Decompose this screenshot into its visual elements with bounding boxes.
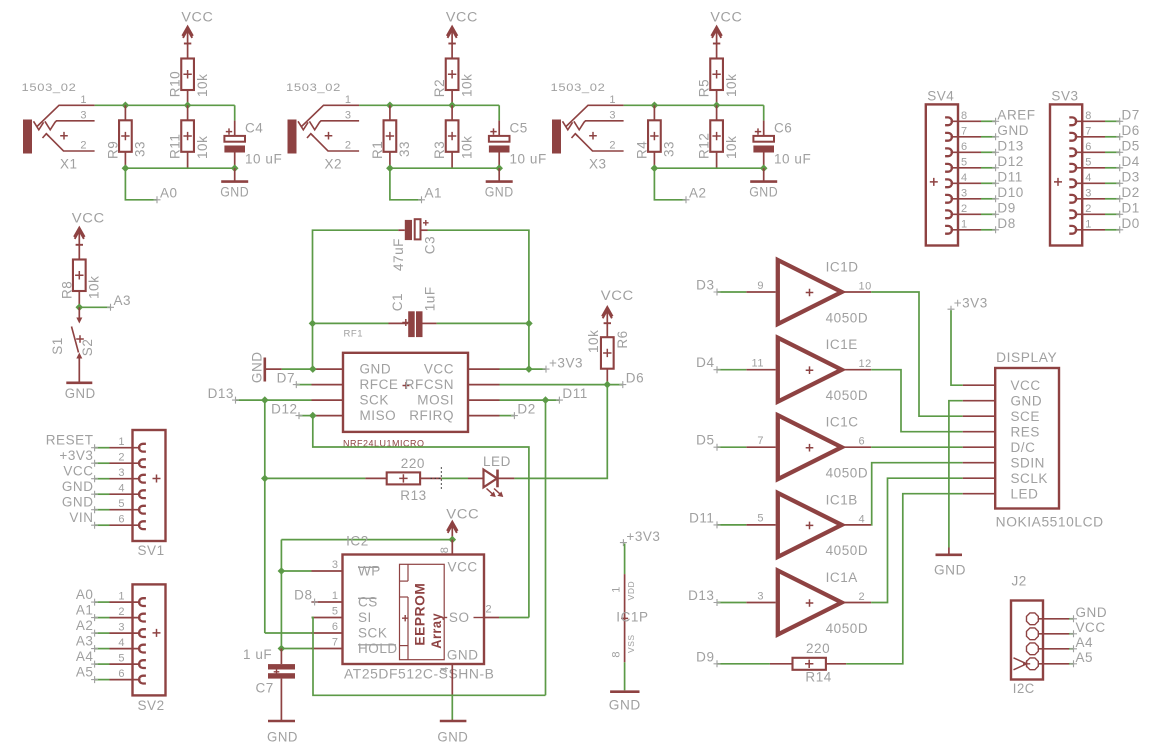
svg-text:12: 12 — [859, 358, 872, 370]
junction — [651, 102, 721, 110]
svg-text:R13: R13 — [400, 488, 426, 503]
svg-text:5: 5 — [1085, 157, 1092, 169]
svg-text:4: 4 — [961, 172, 968, 184]
ground (C7) — [267, 721, 298, 745]
net label +3V3 (module VCC) — [500, 355, 584, 372]
pin net A4 (J2) — [1027, 635, 1094, 655]
svg-text:33: 33 — [397, 141, 412, 157]
resistor R12 10k — [697, 105, 739, 168]
svg-text:3: 3 — [1085, 188, 1092, 200]
svg-text:A0: A0 — [160, 186, 178, 201]
svg-text:8: 8 — [961, 110, 968, 122]
svg-text:LED: LED — [1011, 486, 1039, 501]
svg-text:GND: GND — [62, 495, 94, 510]
svg-text:5: 5 — [757, 513, 764, 525]
svg-text:+3V3: +3V3 — [626, 529, 660, 544]
svg-text:1503_02: 1503_02 — [551, 82, 606, 94]
resistor R1 33 — [370, 105, 412, 168]
svg-text:X1: X1 — [60, 157, 78, 172]
svg-text:2: 2 — [1085, 203, 1092, 215]
power VCC (X3 block) — [710, 10, 742, 59]
svg-text:10: 10 — [859, 280, 872, 292]
svg-text:5: 5 — [118, 498, 125, 510]
svg-text:8: 8 — [610, 651, 622, 658]
junction — [261, 396, 269, 404]
svg-text:R3: R3 — [432, 141, 447, 159]
svg-text:D3: D3 — [696, 278, 714, 293]
net label D3 (input IC1D) — [696, 278, 746, 296]
svg-text:D2: D2 — [1122, 185, 1140, 200]
svg-text:33: 33 — [133, 141, 148, 157]
svg-text:4: 4 — [118, 637, 125, 649]
svg-text:D7: D7 — [1122, 108, 1140, 123]
svg-text:VSS: VSS — [626, 634, 636, 653]
net label D2 (RFIRQ) — [500, 401, 536, 419]
svg-text:IC1B: IC1B — [826, 492, 858, 507]
pin net A5 (J2) — [1027, 650, 1094, 670]
pin 6 net D13 — [945, 139, 1024, 157]
svg-text:10 uF: 10 uF — [510, 152, 547, 167]
svg-text:D5: D5 — [696, 433, 714, 448]
wire net SCK row — [265, 478, 312, 633]
pin 4 net A3 — [76, 634, 146, 653]
svg-text:MOSI: MOSI — [417, 393, 454, 408]
svg-text:3: 3 — [332, 559, 339, 571]
svg-text:4: 4 — [118, 482, 125, 494]
wire net WP — [281, 570, 311, 572]
power VCC (IC2) — [446, 506, 479, 539]
svg-text:10k: 10k — [195, 136, 210, 159]
pin 6 net A5 — [76, 665, 146, 684]
ground — [65, 383, 96, 401]
net label D11 (input IC1B) — [689, 510, 746, 528]
svg-text:3: 3 — [118, 467, 125, 479]
svg-text:4: 4 — [859, 513, 866, 525]
wire net row2 — [654, 167, 763, 169]
svg-text:D9: D9 — [997, 201, 1015, 216]
resistor R8 10k — [59, 260, 101, 308]
svg-text:8: 8 — [439, 547, 451, 554]
svg-text:D11: D11 — [997, 170, 1022, 185]
svg-text:R1: R1 — [370, 141, 385, 159]
resistor R14 220 — [770, 641, 846, 685]
svg-text:D8: D8 — [997, 216, 1015, 231]
svg-text:C5: C5 — [510, 121, 528, 136]
buffer IC1A 4050D — [746, 570, 871, 636]
junction — [278, 567, 286, 652]
svg-text:R4: R4 — [635, 141, 650, 159]
junction — [122, 102, 192, 110]
pin 1 arrow marker (J2) — [1014, 658, 1031, 670]
svg-text:Array: Array — [428, 613, 444, 649]
capacitor C1 1uF — [389, 286, 438, 337]
svg-text:1: 1 — [80, 94, 87, 106]
power VCC (X1 block) — [181, 10, 213, 59]
svg-text:D4: D4 — [696, 355, 714, 370]
svg-text:1: 1 — [961, 219, 968, 231]
resistor R13 220 — [365, 456, 441, 503]
svg-text:AT25DF512C-SSHN-B: AT25DF512C-SSHN-B — [344, 667, 495, 682]
svg-text:X2: X2 — [325, 157, 343, 172]
svg-text:D6: D6 — [1122, 123, 1140, 138]
svg-text:10k: 10k — [195, 74, 210, 97]
ground (display) — [934, 555, 966, 578]
pin 3 net VCC — [63, 464, 146, 483]
svg-text:2: 2 — [345, 140, 352, 152]
svg-text:SI: SI — [358, 610, 372, 625]
pin 4 net GND — [62, 479, 146, 498]
ground — [485, 168, 514, 199]
svg-text:R10: R10 — [168, 71, 183, 97]
svg-text:1: 1 — [609, 94, 616, 106]
svg-text:R12: R12 — [697, 133, 712, 159]
svg-text:1uF: 1uF — [422, 286, 437, 311]
pin 1 net A0 — [76, 587, 146, 606]
svg-text:S2: S2 — [80, 339, 95, 357]
junction — [449, 536, 457, 544]
wire net row1 — [95, 105, 235, 120]
svg-text:GND: GND — [447, 648, 479, 663]
svg-text:10k: 10k — [724, 74, 739, 97]
pin 5 net GND — [62, 495, 146, 514]
svg-text:IC1E: IC1E — [826, 337, 858, 352]
svg-text:D8: D8 — [294, 588, 312, 603]
svg-text:4050D: 4050D — [826, 621, 869, 636]
svg-text:VCC: VCC — [181, 10, 213, 25]
wire net row2 — [390, 167, 499, 169]
svg-text:GND: GND — [749, 185, 778, 200]
resistor R10 10k — [168, 59, 210, 106]
pin 1 net RESET — [46, 433, 146, 452]
buffer IC1B 4050D — [746, 492, 871, 558]
wire net row2 — [125, 167, 234, 169]
svg-text:6: 6 — [118, 513, 125, 525]
svg-text:GND: GND — [62, 479, 94, 494]
capacitor C3 47uF — [391, 219, 437, 271]
pin 3 net D2 — [1069, 185, 1140, 203]
svg-text:2: 2 — [118, 606, 125, 618]
svg-text:D5: D5 — [1122, 139, 1140, 154]
capacitor C6 10uF polarized — [753, 121, 811, 169]
svg-text:VCC: VCC — [710, 10, 742, 25]
wire net IC1D out to SCE — [871, 292, 963, 416]
svg-text:2: 2 — [609, 140, 616, 152]
net label D13 (input IC1A) — [688, 588, 746, 606]
svg-text:GND: GND — [249, 351, 264, 383]
svg-text:2: 2 — [118, 451, 125, 463]
svg-text:C3: C3 — [422, 236, 437, 254]
junction — [309, 412, 317, 420]
svg-text:IC1P: IC1P — [616, 610, 648, 625]
junction — [76, 304, 84, 312]
svg-text:1: 1 — [332, 590, 339, 602]
svg-text:10 uF: 10 uF — [774, 152, 811, 167]
svg-text:6: 6 — [961, 141, 968, 153]
net label D8 (CS) — [294, 588, 318, 606]
svg-text:10 uF: 10 uF — [245, 152, 282, 167]
svg-text:R8: R8 — [59, 281, 74, 299]
svg-text:SV2: SV2 — [138, 698, 165, 713]
pin 1 net D8 — [945, 216, 1016, 234]
svg-text:5: 5 — [332, 606, 339, 618]
svg-text:10k: 10k — [459, 136, 474, 159]
svg-text:D0: D0 — [1122, 216, 1140, 231]
wire net from D13 vertical to R13 — [265, 477, 366, 479]
svg-text:I2C: I2C — [1013, 681, 1035, 696]
wire net IC1B out to SDIN — [871, 463, 963, 525]
pin 5 net D4 — [1069, 154, 1140, 172]
svg-text:GND: GND — [267, 730, 298, 745]
wire net IC1E out to RES — [871, 370, 963, 432]
svg-text:SCK: SCK — [360, 393, 389, 408]
svg-text:1503_02: 1503_02 — [286, 82, 341, 94]
pin 2 net D9 — [945, 201, 1016, 219]
resistor R6 10k — [586, 330, 630, 385]
pin 3 net A2 — [76, 618, 146, 637]
svg-text:A4: A4 — [1076, 635, 1094, 650]
svg-text:VCC: VCC — [1011, 378, 1041, 393]
pin 6 net D5 — [1069, 139, 1140, 157]
power pins IC1P — [610, 529, 660, 690]
svg-text:IC2: IC2 — [346, 534, 369, 549]
svg-text:3: 3 — [118, 621, 125, 633]
svg-text:VCC: VCC — [424, 362, 454, 377]
svg-text:4050D: 4050D — [826, 388, 869, 403]
svg-text:2: 2 — [80, 140, 87, 152]
junction — [309, 320, 533, 328]
svg-text:GND: GND — [65, 386, 96, 401]
svg-text:4050D: 4050D — [826, 543, 869, 558]
pin net VCC (J2) — [1027, 620, 1106, 640]
svg-text:D6: D6 — [626, 370, 644, 385]
wire net HOLD — [281, 648, 311, 650]
svg-text:C6: C6 — [774, 121, 792, 136]
svg-text:DISPLAY: DISPLAY — [996, 350, 1057, 365]
net label D11 + wire (MOSI) — [500, 386, 588, 404]
net label A3 — [79, 293, 131, 311]
svg-text:EEPROM: EEPROM — [412, 583, 428, 646]
svg-text:GND: GND — [1076, 605, 1108, 620]
wire net SI/MOSI — [312, 618, 546, 696]
svg-text:6: 6 — [332, 621, 339, 633]
svg-text:R5: R5 — [697, 79, 712, 97]
svg-text:47uF: 47uF — [391, 238, 406, 271]
svg-text:GND: GND — [997, 123, 1029, 138]
svg-text:A4: A4 — [76, 649, 94, 664]
svg-text:D13: D13 — [997, 139, 1023, 154]
svg-text:D13: D13 — [208, 386, 234, 401]
svg-text:1: 1 — [610, 586, 622, 593]
connector SV2 — [133, 584, 166, 713]
svg-text:1: 1 — [1085, 219, 1092, 231]
net label D7 (RFCE) — [277, 370, 312, 388]
wire net C3 loop — [313, 230, 529, 369]
wire net row1 — [359, 105, 499, 120]
svg-text:A0: A0 — [76, 587, 94, 602]
svg-text:SV3: SV3 — [1051, 89, 1078, 104]
net label A1 — [390, 168, 442, 203]
svg-text:VCC: VCC — [446, 10, 478, 25]
junction — [122, 164, 239, 172]
svg-text:HOLD: HOLD — [358, 641, 398, 656]
svg-text:D10: D10 — [997, 185, 1023, 200]
capacitor C5 10uF polarized — [489, 121, 547, 169]
svg-text:3: 3 — [345, 109, 352, 121]
svg-text:A2: A2 — [689, 186, 707, 201]
wire net MOSI vertical — [545, 400, 547, 695]
svg-text:RFCSN: RFCSN — [405, 377, 454, 392]
ground — [220, 168, 249, 199]
buffer IC1D 4050D — [746, 260, 872, 326]
svg-text:6: 6 — [1085, 141, 1092, 153]
svg-text:RES: RES — [1011, 424, 1040, 439]
wire net MISO to SO — [313, 416, 529, 618]
svg-text:CS: CS — [358, 595, 378, 610]
svg-text:VDD: VDD — [626, 581, 636, 601]
svg-text:SCK: SCK — [358, 626, 387, 641]
pin 3 net D10 — [945, 185, 1024, 203]
svg-text:R9: R9 — [106, 141, 121, 159]
svg-text:R2: R2 — [432, 79, 447, 97]
svg-text:A1: A1 — [76, 603, 94, 618]
pin 8 net D7 — [1069, 108, 1140, 126]
svg-text:7: 7 — [961, 126, 968, 138]
svg-text:GND: GND — [220, 185, 249, 200]
svg-text:D11: D11 — [689, 510, 714, 525]
net label D6 + wire (RFCSN) — [500, 370, 645, 388]
svg-text:R6: R6 — [615, 330, 630, 348]
net label D9 — [696, 649, 770, 667]
svg-text:A1: A1 — [425, 186, 443, 201]
svg-text:2: 2 — [961, 203, 968, 215]
svg-text:D9: D9 — [696, 649, 714, 664]
svg-text:3: 3 — [961, 188, 968, 200]
connector SV1 — [133, 430, 166, 558]
svg-text:VCC: VCC — [72, 211, 105, 226]
pin 4 net D3 — [1069, 170, 1140, 188]
svg-text:10k: 10k — [87, 276, 102, 299]
svg-text:2: 2 — [859, 591, 866, 603]
ground — [749, 168, 778, 199]
svg-text:GND: GND — [360, 362, 392, 377]
junction — [261, 475, 269, 483]
svg-text:RF1: RF1 — [344, 329, 364, 340]
svg-text:A2: A2 — [76, 618, 94, 633]
resistor R3 10k — [432, 105, 474, 168]
ground (IC1P) — [609, 692, 641, 713]
svg-text:A3: A3 — [76, 634, 94, 649]
svg-text:SV4: SV4 — [927, 89, 954, 104]
svg-text:S1: S1 — [50, 337, 65, 355]
wire net GND pin — [282, 368, 313, 370]
svg-text:X3: X3 — [589, 157, 607, 172]
power VCC (R8) — [72, 211, 105, 260]
pin 1 net D0 — [1069, 216, 1140, 234]
svg-text:D1: D1 — [1122, 201, 1140, 216]
svg-text:GND: GND — [934, 563, 966, 578]
net label D4 (input IC1E) — [696, 355, 746, 373]
wire net row1 — [624, 105, 764, 120]
svg-text:3: 3 — [609, 109, 616, 121]
svg-text:A3: A3 — [114, 293, 132, 308]
svg-text:C4: C4 — [245, 121, 263, 136]
module RF1 NRF24LU1MICRO — [312, 329, 500, 450]
resistor R4 33 — [635, 105, 677, 168]
wire net IC1C out to D/C — [871, 446, 963, 448]
svg-text:MISO: MISO — [360, 408, 397, 423]
svg-text:NOKIA5510LCD: NOKIA5510LCD — [996, 515, 1104, 530]
pin 2 net +3V3 — [59, 448, 146, 467]
svg-text:4050D: 4050D — [826, 310, 869, 325]
wire net display GND — [949, 401, 963, 555]
svg-text:RFIRQ: RFIRQ — [409, 408, 454, 423]
svg-text:D/C: D/C — [1011, 440, 1036, 455]
net label D5 (input IC1C) — [696, 433, 746, 451]
capacitor C4 10uF polarized — [224, 121, 282, 169]
svg-text:5: 5 — [118, 652, 125, 664]
svg-text:7: 7 — [757, 435, 764, 447]
svg-text:1: 1 — [118, 436, 125, 448]
buffer IC1E 4050D — [746, 337, 872, 403]
svg-text:C1: C1 — [390, 293, 405, 311]
svg-text:9: 9 — [757, 280, 764, 292]
svg-text:10k: 10k — [724, 136, 739, 159]
svg-text:+3V3: +3V3 — [549, 355, 583, 370]
pin 7 net D6 — [1069, 123, 1140, 141]
svg-text:4050D: 4050D — [826, 466, 869, 481]
pin 6 net VIN — [69, 510, 146, 529]
pin 2 net A1 — [76, 603, 146, 622]
junction — [651, 164, 768, 172]
svg-text:IC1D: IC1D — [826, 260, 859, 275]
resistor R11 10k — [168, 105, 210, 168]
svg-text:220: 220 — [806, 641, 830, 656]
svg-text:VCC: VCC — [601, 288, 634, 303]
ic IC2 AT25DF512C-SSHN-B — [312, 534, 500, 695]
net label A0 — [125, 168, 177, 203]
resistor R9 33 — [106, 105, 148, 168]
svg-text:4: 4 — [1085, 172, 1092, 184]
wire net IC1A out to SCLK — [871, 478, 963, 602]
svg-text:IC1A: IC1A — [826, 570, 858, 585]
svg-text:J2: J2 — [1012, 574, 1027, 589]
svg-text:LED: LED — [483, 454, 511, 469]
svg-text:A5: A5 — [76, 665, 94, 680]
wire net R14 to LED pin — [846, 494, 963, 664]
diode LED — [468, 454, 514, 497]
svg-text:3: 3 — [757, 590, 764, 602]
net label A2 — [654, 168, 706, 203]
svg-text:D12: D12 — [997, 154, 1023, 169]
svg-text:IC1C: IC1C — [826, 415, 859, 430]
power VCC (X2 block) — [446, 10, 478, 59]
connector SV4 — [926, 89, 958, 246]
svg-text:8: 8 — [1085, 110, 1092, 122]
connector jack X3 1503_02 — [551, 82, 624, 172]
svg-text:SDIN: SDIN — [1011, 455, 1045, 470]
display module NOKIA5510LCD — [963, 350, 1104, 530]
net label D12 + wire (MISO) — [271, 401, 313, 419]
wire net C1 row — [313, 322, 529, 324]
pin 4 net D11 — [945, 170, 1023, 188]
svg-text:WP: WP — [358, 564, 381, 579]
svg-text:SCLK: SCLK — [1011, 471, 1048, 486]
svg-text:5: 5 — [961, 157, 968, 169]
svg-text:VCC: VCC — [446, 506, 479, 521]
pin 7 net GND — [945, 123, 1029, 141]
pin 5 net D12 — [945, 154, 1024, 172]
svg-text:C7: C7 — [256, 681, 274, 696]
